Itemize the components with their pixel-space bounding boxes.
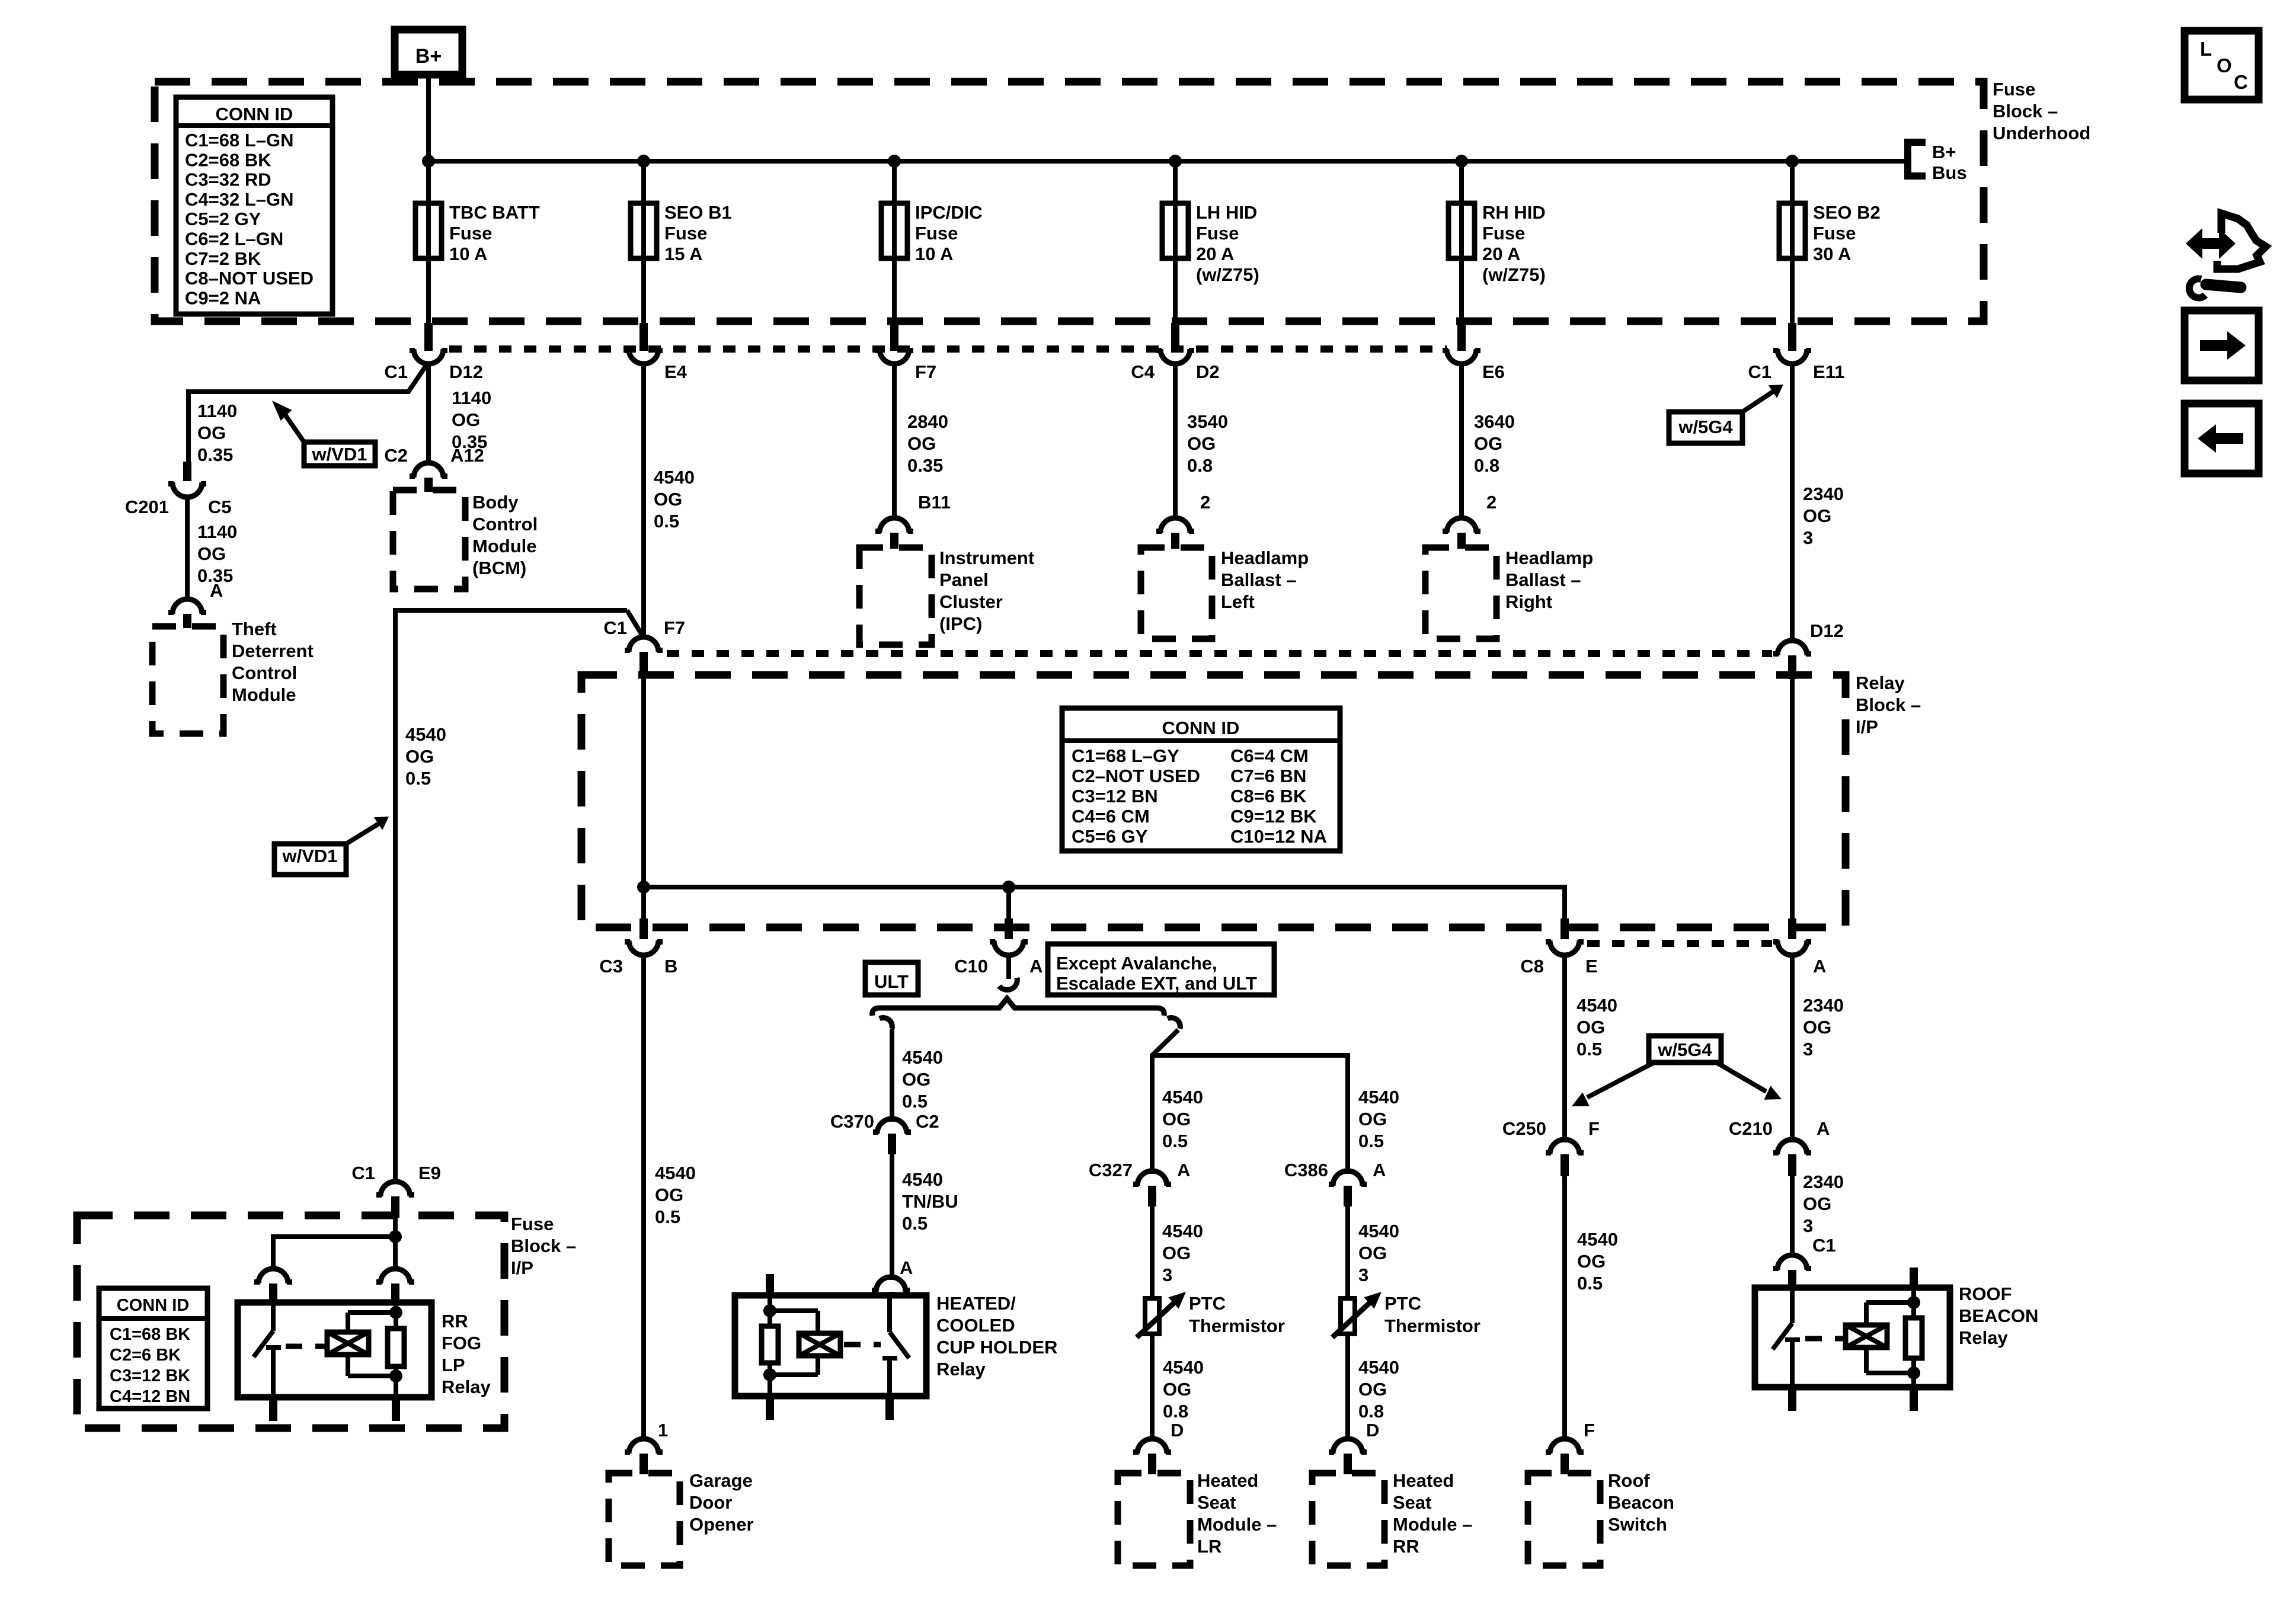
forward arrow box bbox=[2185, 311, 2259, 380]
svg-text:Heated: Heated bbox=[1197, 1470, 1258, 1491]
fuse SEO B2 30 A bbox=[1779, 155, 1881, 351]
label circuit 4540 OG 0.5 (C8) bbox=[1576, 995, 1617, 1060]
connector RR fog relay pin 1 bbox=[254, 1269, 292, 1304]
power symbol B+ bbox=[395, 30, 462, 75]
wire 3640 OG to right ballast bbox=[1459, 361, 1464, 519]
svg-text:A: A bbox=[1029, 956, 1043, 977]
label terminal D (LR) bbox=[1171, 1420, 1184, 1441]
junction bus at C3 bbox=[637, 881, 650, 894]
RR fog relay coil bbox=[327, 1313, 369, 1376]
svg-text:C7=6 BN: C7=6 BN bbox=[1230, 766, 1306, 786]
svg-text:F7: F7 bbox=[915, 361, 936, 382]
svg-text:Beacon: Beacon bbox=[1608, 1492, 1674, 1513]
label body control module bbox=[472, 492, 538, 578]
svg-text:0.8: 0.8 bbox=[1358, 1401, 1384, 1422]
svg-text:Headlamp: Headlamp bbox=[1221, 548, 1309, 568]
svg-text:0.5: 0.5 bbox=[654, 511, 679, 532]
svg-text:LP: LP bbox=[442, 1355, 465, 1375]
junction roof coil top bbox=[1907, 1296, 1920, 1309]
cup holder relay switch bbox=[882, 1295, 909, 1396]
svg-text:3: 3 bbox=[1803, 1039, 1813, 1060]
svg-text:4540: 4540 bbox=[1358, 1221, 1399, 1241]
conn id table relay block bbox=[1062, 708, 1340, 851]
svg-text:4540: 4540 bbox=[405, 724, 446, 745]
svg-text:OG: OG bbox=[197, 422, 226, 443]
svg-text:w/VD1: w/VD1 bbox=[282, 846, 337, 866]
loc symbol box bbox=[2185, 31, 2259, 100]
svg-text:Relay: Relay bbox=[936, 1359, 986, 1379]
label heated seat module RR bbox=[1393, 1470, 1472, 1557]
svg-text:Control: Control bbox=[232, 662, 297, 683]
svg-text:15 A: 15 A bbox=[664, 244, 702, 264]
label terminal 2 (left ballast) bbox=[1200, 492, 1210, 513]
svg-text:2: 2 bbox=[1486, 492, 1496, 513]
connector A (relay block output) bbox=[1773, 918, 1826, 977]
roof beacon relay bottom pins bbox=[1788, 1387, 1918, 1411]
label fuse block IP bbox=[511, 1214, 576, 1278]
connector D12 (fuse block) bbox=[384, 348, 483, 382]
junction cup holder coil top bbox=[763, 1304, 776, 1317]
svg-text:D2: D2 bbox=[1196, 361, 1220, 382]
label terminal F (switch) bbox=[1584, 1420, 1595, 1441]
svg-text:E9: E9 bbox=[418, 1163, 441, 1183]
svg-text:1: 1 bbox=[658, 1420, 668, 1441]
label terminal D (RR) bbox=[1366, 1420, 1379, 1441]
label C1 E9 bbox=[351, 1163, 441, 1183]
svg-text:2340: 2340 bbox=[1803, 995, 1844, 1016]
svg-text:Relay: Relay bbox=[1856, 673, 1905, 693]
svg-text:C2–NOT USED: C2–NOT USED bbox=[1072, 766, 1200, 786]
wire E9 into relay pins bbox=[273, 1218, 395, 1271]
headlamp ballast left box bbox=[1141, 548, 1212, 639]
svg-text:CONN ID: CONN ID bbox=[1162, 718, 1240, 738]
label circuit 4540 OG 0.8 (RR) bbox=[1358, 1357, 1399, 1422]
svg-text:F: F bbox=[1584, 1420, 1595, 1441]
svg-text:OG: OG bbox=[654, 489, 682, 510]
svg-text:C370: C370 bbox=[830, 1111, 874, 1132]
svg-text:OG: OG bbox=[1576, 1017, 1605, 1038]
svg-text:D: D bbox=[1171, 1420, 1184, 1441]
svg-text:C4=12 BN: C4=12 BN bbox=[110, 1387, 190, 1406]
label heated cooled cup holder relay bbox=[936, 1293, 1057, 1379]
svg-text:A12: A12 bbox=[450, 445, 484, 466]
svg-text:Thermistor: Thermistor bbox=[1384, 1315, 1480, 1336]
svg-text:E: E bbox=[1585, 956, 1598, 977]
RR fog relay coil loop bbox=[348, 1313, 396, 1376]
svg-text:C10: C10 bbox=[954, 956, 988, 977]
label instrument panel cluster bbox=[939, 548, 1034, 634]
wire PTC RR to heated seat module bbox=[1345, 1334, 1350, 1439]
svg-text:OG: OG bbox=[197, 543, 226, 564]
svg-text:2340: 2340 bbox=[1803, 1172, 1844, 1192]
svg-text:0.35: 0.35 bbox=[907, 455, 943, 476]
svg-text:4540: 4540 bbox=[1162, 1087, 1203, 1108]
wire 1140 OG to C201 bbox=[188, 362, 428, 466]
svg-text:IPC/DIC: IPC/DIC bbox=[915, 202, 983, 223]
connector A cup holder relay bbox=[872, 1277, 910, 1297]
svg-text:0.5: 0.5 bbox=[1162, 1131, 1188, 1151]
svg-text:3: 3 bbox=[1162, 1265, 1172, 1285]
svg-text:OG: OG bbox=[1358, 1243, 1387, 1263]
wire D12 through relay block bbox=[1790, 679, 1795, 924]
svg-text:Fuse: Fuse bbox=[1482, 223, 1525, 244]
svg-text:0.8: 0.8 bbox=[1187, 455, 1213, 476]
svg-text:Module –: Module – bbox=[1197, 1514, 1277, 1535]
cup holder relay pin stub left bbox=[766, 1274, 774, 1295]
wire C10 split hook bbox=[999, 953, 1017, 990]
wire 1140 OG to BCM bbox=[426, 361, 431, 464]
fuse IPC/DIC 10 A bbox=[881, 155, 983, 351]
label garage door opener bbox=[689, 1470, 754, 1535]
label C2 A12 bbox=[384, 445, 484, 466]
option label ULT box bbox=[865, 962, 918, 995]
svg-text:C4=32 L–GN: C4=32 L–GN bbox=[185, 189, 294, 210]
svg-text:Instrument: Instrument bbox=[939, 548, 1034, 568]
wire 3540 OG to left ballast bbox=[1173, 361, 1178, 519]
connector C201 C5 bbox=[125, 462, 232, 517]
option label w/5G4 (top) bbox=[1669, 385, 1783, 443]
label headlamp ballast right bbox=[1505, 548, 1593, 612]
connector C1 E9 (fuse block IP) bbox=[376, 1182, 414, 1218]
svg-text:L: L bbox=[2200, 38, 2212, 60]
wire 4540 TN/BU to cup holder relay bbox=[890, 1154, 894, 1280]
conn id table fuse block underhood bbox=[176, 97, 332, 314]
svg-text:C5=2 GY: C5=2 GY bbox=[185, 209, 261, 229]
label terminal B11 bbox=[918, 492, 951, 513]
RR fog relay resistor bbox=[388, 1302, 404, 1397]
label circuit 2340 OG 3 (relay) bbox=[1803, 1172, 1844, 1236]
svg-text:C1=68 L–GY: C1=68 L–GY bbox=[1072, 745, 1179, 766]
theft deterrent control module box bbox=[152, 626, 223, 734]
svg-text:Headlamp: Headlamp bbox=[1505, 548, 1593, 568]
relay RR FOG LP box bbox=[238, 1302, 431, 1397]
svg-text:Heated: Heated bbox=[1393, 1470, 1454, 1491]
svg-text:4540: 4540 bbox=[1577, 1229, 1618, 1250]
label circuit 2340 OG 3 (A) bbox=[1803, 995, 1844, 1060]
svg-text:3: 3 bbox=[1803, 527, 1813, 548]
roof beacon relay switch bbox=[1773, 1288, 1800, 1387]
connector A theft deterrent bbox=[168, 599, 206, 628]
svg-text:4540: 4540 bbox=[1162, 1221, 1203, 1241]
label circuit 4540 OG 0.5 (switch) bbox=[1577, 1229, 1618, 1294]
svg-text:0.8: 0.8 bbox=[1474, 455, 1499, 476]
junction E9 split bbox=[389, 1230, 402, 1243]
connector D2 (fuse block) bbox=[1131, 348, 1219, 382]
svg-text:1140: 1140 bbox=[197, 401, 237, 421]
svg-text:Panel: Panel bbox=[939, 569, 989, 590]
body control module box bbox=[393, 490, 465, 589]
junction cup holder coil bottom bbox=[763, 1368, 776, 1381]
connector 2 headlamp ballast left bbox=[1156, 518, 1194, 549]
svg-text:C1: C1 bbox=[603, 617, 627, 638]
fuse TBC BATT 10 A bbox=[415, 161, 540, 351]
label circuit 4540 OG 0.5 (C327) bbox=[1162, 1087, 1203, 1151]
svg-text:Seat: Seat bbox=[1393, 1492, 1431, 1513]
svg-text:C1=68 BK: C1=68 BK bbox=[110, 1325, 190, 1344]
svg-text:C3: C3 bbox=[599, 956, 623, 977]
svg-text:C1: C1 bbox=[1812, 1235, 1836, 1256]
back arrow box bbox=[2185, 404, 2259, 473]
svg-text:C1=68 L–GN: C1=68 L–GN bbox=[185, 130, 294, 151]
connector F7 (fuse block) bbox=[875, 348, 936, 382]
instrument panel cluster box bbox=[859, 548, 932, 645]
wire 4540 OG branch to fuse block IP bbox=[395, 610, 627, 1184]
svg-text:0.5: 0.5 bbox=[1577, 1273, 1603, 1294]
svg-text:20 A: 20 A bbox=[1196, 244, 1234, 264]
roof beacon relay resistor bbox=[1905, 1267, 1922, 1387]
svg-text:(w/Z75): (w/Z75) bbox=[1482, 264, 1546, 285]
svg-text:0.5: 0.5 bbox=[655, 1206, 680, 1227]
junction roof coil bottom bbox=[1907, 1366, 1920, 1379]
wire split hook to thermistors bbox=[1152, 1018, 1348, 1174]
svg-text:A: A bbox=[1817, 1118, 1830, 1139]
wire 4540 OG C8 to C250 bbox=[1562, 953, 1567, 1142]
wire B+ bus bbox=[428, 159, 1908, 164]
svg-text:w/5G4: w/5G4 bbox=[1678, 417, 1733, 437]
connector D heated seat LR bbox=[1133, 1439, 1171, 1474]
connector D heated seat RR bbox=[1329, 1439, 1367, 1474]
RR fog relay switch bbox=[254, 1302, 281, 1397]
svg-text:C2=6 BK: C2=6 BK bbox=[110, 1346, 181, 1365]
svg-text:CONN ID: CONN ID bbox=[117, 1296, 189, 1315]
svg-text:TBC BATT: TBC BATT bbox=[449, 202, 540, 223]
fuse block underhood dashed boundary bbox=[155, 82, 1984, 321]
label circuit 4540 OG 0.5 (C3) bbox=[655, 1163, 696, 1227]
PTC thermistor (LR) bbox=[1137, 1292, 1285, 1337]
svg-text:C5: C5 bbox=[208, 497, 232, 517]
svg-text:Relay: Relay bbox=[1959, 1327, 2008, 1348]
svg-text:C1: C1 bbox=[351, 1163, 375, 1183]
svg-text:C9=12 BK: C9=12 BK bbox=[1230, 806, 1317, 827]
svg-text:I/P: I/P bbox=[1856, 716, 1878, 737]
svg-text:B+: B+ bbox=[1932, 142, 1956, 162]
svg-text:Bus: Bus bbox=[1932, 162, 1967, 183]
wire diagonal into C1 F7 bbox=[627, 610, 644, 638]
svg-text:E11: E11 bbox=[1813, 361, 1844, 382]
svg-text:Right: Right bbox=[1505, 591, 1552, 612]
roof beacon relay coil loop bbox=[1866, 1302, 1914, 1373]
heated seat module RR box bbox=[1312, 1473, 1384, 1566]
connector 1 garage door opener bbox=[625, 1439, 663, 1474]
svg-text:C: C bbox=[2234, 71, 2248, 93]
label circuit 4540 OG 0.5 (ULT) bbox=[902, 1047, 943, 1112]
dotted connector row F7 to D12 bbox=[667, 650, 1772, 657]
svg-text:C6=4 CM: C6=4 CM bbox=[1230, 745, 1309, 766]
svg-text:A: A bbox=[900, 1257, 913, 1278]
svg-text:ULT: ULT bbox=[874, 971, 909, 992]
svg-text:D12: D12 bbox=[1810, 620, 1844, 641]
label circuit 1140 OG 0.35 (BCM) bbox=[452, 388, 491, 452]
svg-text:OG: OG bbox=[1163, 1379, 1191, 1400]
wire PTC LR to heated seat module bbox=[1150, 1334, 1155, 1439]
svg-text:(BCM): (BCM) bbox=[472, 558, 526, 578]
svg-text:20 A: 20 A bbox=[1482, 244, 1520, 264]
svg-text:C1: C1 bbox=[384, 361, 408, 382]
dotted connector row fuse block bbox=[449, 345, 1447, 353]
svg-text:4540: 4540 bbox=[654, 467, 695, 488]
svg-text:Module: Module bbox=[472, 536, 537, 556]
relay cup holder box bbox=[735, 1295, 926, 1396]
connector 2 headlamp ballast right bbox=[1443, 518, 1480, 549]
svg-text:C2: C2 bbox=[384, 445, 408, 466]
svg-text:C201: C201 bbox=[125, 497, 169, 517]
label circuit 4540 OG 0.5 (E4-F7) bbox=[654, 467, 695, 532]
label theft deterrent control module bbox=[232, 619, 314, 705]
svg-text:Fuse: Fuse bbox=[1196, 223, 1239, 244]
svg-text:w/VD1: w/VD1 bbox=[311, 444, 367, 465]
svg-text:C3=12 BK: C3=12 BK bbox=[110, 1366, 190, 1385]
svg-text:Except Avalanche,: Except Avalanche, bbox=[1056, 953, 1217, 974]
svg-text:OG: OG bbox=[1474, 433, 1502, 454]
svg-text:C386: C386 bbox=[1284, 1160, 1328, 1180]
svg-text:F: F bbox=[1588, 1118, 1600, 1139]
roof beacon relay linkage bbox=[1805, 1336, 1843, 1342]
svg-text:Relay: Relay bbox=[442, 1377, 491, 1397]
connector C10 A (relay block output) bbox=[954, 918, 1043, 977]
svg-text:OG: OG bbox=[1577, 1251, 1606, 1272]
svg-text:C3=12 BN: C3=12 BN bbox=[1072, 786, 1158, 806]
svg-text:COOLED: COOLED bbox=[936, 1315, 1015, 1336]
label roof beacon switch bbox=[1608, 1470, 1674, 1535]
svg-text:3: 3 bbox=[1358, 1265, 1368, 1285]
connector C210 A bbox=[1729, 1118, 1830, 1176]
junction coil bottom bbox=[389, 1369, 402, 1382]
svg-text:C10=12 NA: C10=12 NA bbox=[1230, 826, 1327, 847]
svg-text:Cluster: Cluster bbox=[939, 591, 1003, 612]
svg-text:LH HID: LH HID bbox=[1196, 202, 1257, 223]
svg-text:OG: OG bbox=[1803, 1193, 1831, 1214]
svg-text:C8–NOT USED: C8–NOT USED bbox=[185, 268, 314, 289]
label terminal A (cup holder) bbox=[900, 1257, 913, 1278]
wire 4540 OG C3 to garage door opener bbox=[641, 953, 646, 1439]
wire 2340 OG A to C210 bbox=[1790, 953, 1795, 1142]
svg-text:C3=32 RD: C3=32 RD bbox=[185, 169, 271, 190]
svg-text:Seat: Seat bbox=[1197, 1492, 1236, 1513]
option label w/5G4 (lower) bbox=[1572, 1036, 1782, 1106]
svg-text:0.8: 0.8 bbox=[1163, 1401, 1188, 1422]
svg-text:C9=2 NA: C9=2 NA bbox=[185, 287, 261, 308]
svg-text:(IPC): (IPC) bbox=[939, 613, 982, 634]
connector RR fog relay pin 2 bbox=[376, 1269, 414, 1304]
relay roof beacon box bbox=[1755, 1288, 1950, 1387]
label circuit 4540 OG 3 (LR) bbox=[1162, 1221, 1203, 1285]
label terminal 1 (garage) bbox=[658, 1420, 668, 1441]
svg-text:Block –: Block – bbox=[1993, 101, 2058, 121]
wire 2340 OG to roof beacon relay bbox=[1790, 1176, 1795, 1257]
connector C370 C2 bbox=[830, 1111, 939, 1154]
svg-text:1140: 1140 bbox=[197, 521, 237, 542]
svg-text:CUP HOLDER: CUP HOLDER bbox=[936, 1337, 1057, 1358]
svg-text:C2=68 BK: C2=68 BK bbox=[185, 149, 271, 170]
garage door opener box bbox=[609, 1473, 680, 1566]
svg-text:(w/Z75): (w/Z75) bbox=[1196, 264, 1259, 285]
label terminal A (theft) bbox=[210, 580, 223, 601]
svg-text:OG: OG bbox=[452, 409, 480, 430]
svg-text:4540: 4540 bbox=[902, 1169, 943, 1190]
svg-text:Fuse: Fuse bbox=[511, 1214, 554, 1234]
fuse LH HID 20 A bbox=[1162, 155, 1259, 351]
svg-text:OG: OG bbox=[1358, 1109, 1387, 1129]
svg-text:LR: LR bbox=[1197, 1536, 1221, 1557]
svg-text:3540: 3540 bbox=[1187, 411, 1228, 432]
svg-text:Garage: Garage bbox=[689, 1470, 753, 1491]
svg-text:4540: 4540 bbox=[1358, 1357, 1399, 1378]
svg-text:CONN ID: CONN ID bbox=[216, 104, 293, 124]
svg-text:4540: 4540 bbox=[655, 1163, 696, 1183]
svg-text:HEATED/: HEATED/ bbox=[936, 1293, 1016, 1314]
svg-text:OG: OG bbox=[655, 1185, 683, 1205]
svg-text:0.5: 0.5 bbox=[1576, 1039, 1602, 1060]
svg-text:Block –: Block – bbox=[511, 1235, 576, 1256]
svg-text:Left: Left bbox=[1221, 591, 1255, 612]
svg-text:Fuse: Fuse bbox=[1813, 223, 1856, 244]
svg-text:2840: 2840 bbox=[907, 411, 948, 432]
svg-text:2: 2 bbox=[1200, 492, 1210, 513]
connector E11 (fuse block) bbox=[1748, 348, 1844, 382]
svg-text:Door: Door bbox=[689, 1492, 732, 1513]
svg-text:O: O bbox=[2217, 55, 2232, 76]
option label w/VD1 (top) bbox=[272, 401, 375, 466]
svg-text:Opener: Opener bbox=[689, 1514, 754, 1535]
svg-text:w/5G4: w/5G4 bbox=[1657, 1039, 1712, 1060]
svg-text:C5=6 GY: C5=6 GY bbox=[1072, 826, 1148, 847]
label circuit 3540 OG 0.8 bbox=[1187, 411, 1228, 476]
svg-text:C250: C250 bbox=[1502, 1118, 1546, 1139]
svg-text:C210: C210 bbox=[1729, 1118, 1773, 1139]
connector C250 F bbox=[1502, 1118, 1600, 1176]
svg-text:Module: Module bbox=[232, 684, 296, 705]
svg-text:Control: Control bbox=[472, 514, 538, 534]
svg-text:A: A bbox=[1813, 956, 1826, 977]
svg-text:OG: OG bbox=[1162, 1109, 1191, 1129]
label circuit 4540 OG 3 (RR) bbox=[1358, 1221, 1399, 1285]
label circuit 2840 OG 0.35 bbox=[907, 411, 948, 476]
connector C8 E (relay block output) bbox=[1520, 918, 1597, 977]
fuse RH HID 20 A bbox=[1448, 155, 1546, 351]
svg-text:A: A bbox=[1373, 1160, 1386, 1180]
option label w/VD1 (lower) bbox=[274, 817, 389, 875]
connector C1 F7 (relay block input) bbox=[603, 617, 685, 676]
svg-text:0.5: 0.5 bbox=[405, 768, 431, 789]
svg-text:OG: OG bbox=[1358, 1379, 1387, 1400]
svg-text:F7: F7 bbox=[664, 617, 685, 638]
svg-text:C6=2 L–GN: C6=2 L–GN bbox=[185, 229, 283, 249]
RR fog relay linkage bbox=[286, 1344, 325, 1349]
svg-text:1140: 1140 bbox=[452, 388, 491, 408]
label circuit 4540 OG 0.5 (to RR fog relay) bbox=[405, 724, 446, 789]
svg-text:10 A: 10 A bbox=[449, 244, 487, 264]
label circuit 1140 OG 0.35 (upper) bbox=[197, 401, 237, 465]
connector E4 (fuse block) bbox=[625, 348, 687, 382]
svg-text:0.35: 0.35 bbox=[197, 444, 233, 465]
cup holder relay bottom pins bbox=[766, 1396, 894, 1420]
junction coil top bbox=[389, 1306, 402, 1319]
svg-text:I/P: I/P bbox=[511, 1257, 533, 1278]
svg-text:RR: RR bbox=[442, 1311, 468, 1331]
label circuit 2340 OG 3 (E11-D12) bbox=[1803, 484, 1844, 548]
connector B11 (IPC) bbox=[875, 518, 913, 549]
svg-text:4540: 4540 bbox=[1576, 995, 1617, 1016]
svg-text:OG: OG bbox=[907, 433, 936, 454]
connector C327 A bbox=[1089, 1160, 1191, 1206]
svg-text:A: A bbox=[1177, 1160, 1190, 1180]
wire 1140 OG to theft module bbox=[185, 495, 190, 600]
label terminal 2 (right ballast) bbox=[1486, 492, 1496, 513]
svg-text:Fuse: Fuse bbox=[915, 223, 958, 244]
label roof beacon relay bbox=[1959, 1283, 2038, 1348]
svg-text:10 A: 10 A bbox=[915, 244, 953, 264]
svg-text:D: D bbox=[1366, 1420, 1379, 1441]
